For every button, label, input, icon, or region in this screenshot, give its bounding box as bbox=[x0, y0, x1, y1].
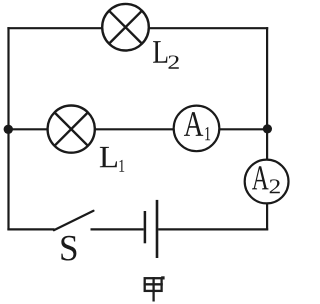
label L2: letter L bbox=[153, 41, 167, 63]
battery positive (long) plate bbox=[156, 200, 159, 258]
label S (switch) bbox=[61, 236, 76, 261]
wire bottom-left segment to switch pivot bbox=[7, 228, 54, 230]
label L2: subscript 2 bbox=[169, 55, 179, 68]
wire top conductor (left rail to right rail) bbox=[7, 27, 268, 29]
label L1: subscript 1 bbox=[119, 160, 124, 172]
battery negative (short) plate bbox=[144, 211, 147, 243]
label 甲 (figure caption, drawn strokes) bbox=[144, 277, 163, 302]
switch S blade bbox=[54, 211, 94, 230]
lamp L1 bbox=[48, 106, 95, 153]
ammeter A2 bbox=[245, 160, 289, 204]
wire right rail (vertical) bbox=[266, 27, 268, 230]
ammeter A1 subscript 1 bbox=[205, 127, 210, 140]
wire switch contact to battery negative plate bbox=[91, 228, 144, 230]
ammeter A2 letter A bbox=[252, 166, 269, 189]
wire left rail (vertical) bbox=[7, 27, 9, 230]
ammeter A1 letter A bbox=[184, 112, 203, 136]
ammeter A2 subscript 2 bbox=[270, 179, 280, 193]
battery cell bbox=[145, 200, 157, 258]
ammeter A1 bbox=[174, 106, 220, 152]
wire middle branch conductor bbox=[7, 128, 268, 130]
lamp L2 bbox=[102, 4, 149, 51]
label 甲 top-right serif blob bbox=[161, 276, 164, 279]
wire battery positive plate to bottom-right corner bbox=[158, 228, 268, 230]
label L1: letter L bbox=[100, 147, 117, 167]
node junction dot (left rail / middle branch) bbox=[4, 125, 13, 134]
node junction dot (right rail / middle branch) bbox=[263, 124, 272, 133]
